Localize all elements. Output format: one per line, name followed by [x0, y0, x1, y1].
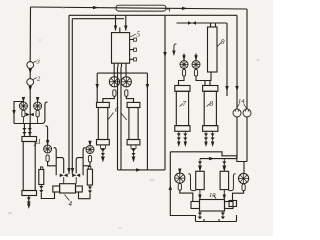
wire bus line 2	[69, 15, 237, 174]
descender from hook tube left	[56, 158, 64, 174]
wire arrow between bubblers	[29, 69, 32, 75]
valve below right descender	[72, 174, 80, 178]
wire main left feed through bubblers	[29, 68, 31, 135]
svg-text:6: 6	[115, 106, 119, 114]
gas counter 14 right	[243, 109, 251, 117]
reactor 5 right stubs	[130, 40, 134, 60]
wire outer right drop	[246, 9, 248, 109]
svg-text:8: 8	[210, 100, 214, 108]
wire U-bend right	[79, 192, 91, 199]
wire blower outlets to adsorber tops	[103, 96, 134, 102]
label 8	[207, 104, 211, 107]
svg-text:3: 3	[36, 59, 41, 66]
wash column 13 hook	[229, 174, 236, 191]
wire drop to wash column left	[199, 159, 201, 172]
column 9	[208, 27, 218, 72]
column 8	[203, 86, 218, 92]
rotameter left of receiver	[175, 173, 185, 183]
svg-text:1: 1	[38, 138, 42, 146]
reactor 5 bottom stubs	[114, 63, 126, 68]
wire to column 8 top	[196, 76, 210, 86]
adsorber 6 left	[97, 102, 110, 107]
wire left branch with arrow	[14, 102, 23, 124]
wire long return down to receiver	[170, 152, 195, 222]
wire outer top bus	[31, 7, 248, 9]
label 7	[180, 104, 184, 107]
wire bus line 3	[72, 19, 227, 174]
wire arrow on gas counter line	[235, 86, 238, 92]
level burette left	[41, 167, 43, 170]
svg-text:4: 4	[69, 200, 73, 208]
wire gap pipe collector to riser	[118, 15, 166, 170]
svg-text:9: 9	[221, 38, 225, 46]
wash column 13	[220, 171, 229, 189]
blower left of pair under reactor	[109, 77, 119, 87]
receiver 10 drains	[200, 211, 223, 219]
label 1	[34, 143, 38, 147]
burette B right	[34, 102, 42, 110]
valve stem below right blower	[125, 90, 128, 97]
wire drops into column 1	[24, 124, 29, 137]
svg-text:5: 5	[137, 31, 141, 39]
blower right above column 8	[192, 61, 200, 69]
wire manifold around blowers	[97, 73, 147, 170]
label 10	[214, 195, 217, 199]
wire collector hook	[42, 102, 48, 123]
valve on feed	[26, 113, 34, 117]
wire arrow on top bus	[93, 6, 99, 9]
gas meter left feed stub	[45, 126, 47, 145]
column 1	[22, 137, 37, 142]
column 8 drains	[206, 131, 213, 144]
wire arrow on riser	[163, 52, 166, 58]
adsorber 6 right	[127, 102, 140, 107]
svg-text:14: 14	[238, 98, 245, 105]
wire rotameter right to receiver	[233, 191, 244, 201]
gas counter 14 left	[233, 109, 241, 117]
column 7	[175, 86, 190, 92]
hook tube left	[54, 148, 57, 176]
wire gas meter right outlet to pot	[83, 162, 90, 166]
descender from hook tube right	[76, 158, 83, 174]
label 6 with leaders	[108, 113, 127, 121]
wire gas meter left outlet to pot	[48, 162, 57, 166]
valve stem below left blower	[113, 90, 116, 97]
wire return loop to scrubber bottoms	[170, 152, 247, 174]
reactor 5	[112, 33, 130, 64]
bubbler 2	[27, 79, 34, 86]
header drum at top	[116, 5, 166, 11]
blower left above column 7	[180, 61, 188, 69]
column 1 bottom drain	[28, 196, 30, 207]
wire rotameter left to receiver	[180, 190, 193, 201]
wire arrow on top bus right	[182, 7, 188, 10]
wire arrows into reactor top	[114, 26, 117, 32]
wash column 12 hook	[188, 174, 195, 191]
wire arrow on collector	[136, 168, 142, 171]
wire bus line 4 (to reactor and column 9)	[72, 15, 227, 30]
adsorber 6 right drain	[133, 148, 135, 160]
gas meter left of lower cluster	[44, 145, 52, 153]
hook tube right	[83, 148, 86, 176]
valve on column 9 feed line	[188, 21, 196, 25]
paper smudges	[8, 7, 260, 229]
valve below left descender	[60, 174, 68, 178]
separator 4	[60, 184, 76, 193]
wire drop to wash column right	[223, 159, 225, 172]
receiver 10	[200, 200, 225, 212]
wire receiver bottom tray	[196, 215, 237, 222]
wire gas counters downcomers	[237, 117, 247, 162]
label 5	[131, 34, 137, 37]
wire to column 7 top	[179, 76, 185, 86]
bubbler 3	[27, 62, 34, 69]
burette A left	[19, 102, 27, 110]
adsorber 6 left drain	[102, 148, 104, 160]
rotameter right of receiver	[239, 173, 249, 183]
wire column 9 bottom to column 8	[205, 72, 211, 86]
label 9	[217, 42, 221, 47]
wash column 12	[196, 171, 205, 189]
svg-text:7: 7	[183, 100, 187, 108]
blower right of pair under reactor	[121, 77, 131, 87]
wire wash columns to receiver	[200, 190, 224, 200]
column 7 drains	[179, 131, 186, 144]
level burette right	[88, 167, 91, 170]
wire outer left drop	[29, 7, 31, 62]
wire stems reactor to blowers	[114, 68, 126, 77]
label 4	[65, 195, 70, 201]
label 14 with leaders	[237, 104, 247, 109]
wire collector above column 1	[14, 123, 42, 125]
wire arrows on manifold verticals	[96, 84, 99, 90]
wire arrow below bubblers	[29, 86, 32, 92]
reactor 5 top stub	[119, 28, 121, 33]
wire gap pipes between adsorbers	[118, 67, 122, 170]
wire arrow end of x227 line	[225, 86, 228, 92]
wire distribution to wash columns	[200, 158, 237, 160]
wire U-bend left	[41, 192, 54, 199]
inlet stub with hook near riser	[174, 44, 177, 54]
arrows at central pipe ends	[67, 168, 70, 174]
svg-text:2: 2	[37, 76, 41, 83]
svg-text:10: 10	[209, 192, 216, 199]
gas meter right of lower cluster	[86, 146, 94, 154]
